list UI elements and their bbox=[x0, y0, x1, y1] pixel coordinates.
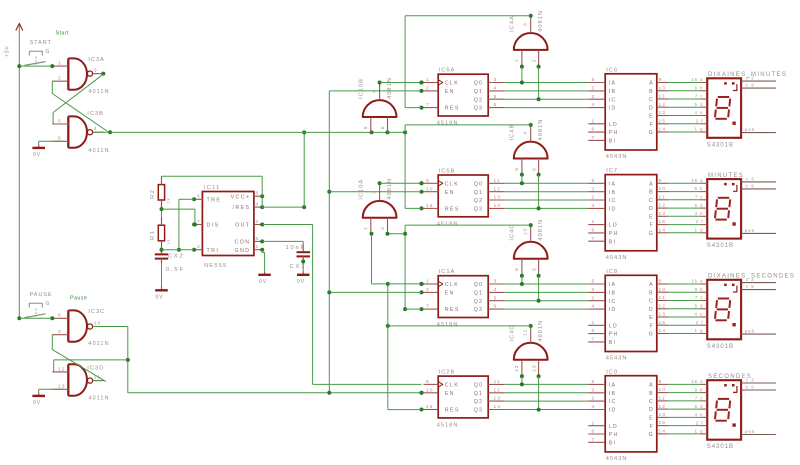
svg-text:GND: GND bbox=[235, 248, 251, 254]
svg-text:4: 4 bbox=[592, 102, 596, 108]
svg-text:5 d: 5 d bbox=[695, 404, 704, 409]
svg-text:EN: EN bbox=[445, 391, 455, 397]
svg-text:3: 3 bbox=[256, 219, 260, 225]
svg-text:6: 6 bbox=[494, 304, 498, 310]
svg-text:16 a: 16 a bbox=[691, 379, 703, 384]
svg-text:6: 6 bbox=[197, 194, 201, 200]
svg-text:G: G bbox=[46, 301, 51, 307]
svg-text:A: A bbox=[649, 383, 654, 389]
svg-text:5 d: 5 d bbox=[695, 102, 704, 107]
svg-text:12: 12 bbox=[58, 366, 65, 372]
svg-text:Q1: Q1 bbox=[474, 291, 483, 297]
svg-text:14: 14 bbox=[659, 227, 666, 233]
svg-text:A: A bbox=[649, 282, 654, 288]
svg-text:3: 3 bbox=[592, 86, 596, 92]
svg-text:IC5A: IC5A bbox=[439, 68, 456, 74]
svg-text:15: 15 bbox=[426, 404, 433, 410]
svg-text:9 b: 9 b bbox=[695, 387, 704, 392]
svg-text:4011N: 4011N bbox=[88, 89, 109, 95]
svg-text:PH: PH bbox=[609, 432, 619, 438]
svg-text:1: 1 bbox=[58, 61, 62, 67]
svg-text:B: B bbox=[649, 89, 654, 95]
svg-text:15: 15 bbox=[659, 320, 666, 326]
svg-text:c 9: c 9 bbox=[746, 384, 755, 389]
svg-text:9: 9 bbox=[659, 77, 663, 83]
svg-text:CON: CON bbox=[235, 240, 251, 246]
svg-text:Q2: Q2 bbox=[474, 399, 483, 405]
svg-text:Q3: Q3 bbox=[474, 408, 483, 414]
svg-text:1: 1 bbox=[592, 320, 596, 326]
svg-text:9: 9 bbox=[426, 379, 430, 385]
svg-text:PH: PH bbox=[609, 231, 619, 237]
svg-text:Q3: Q3 bbox=[474, 106, 483, 112]
svg-text:3: 3 bbox=[372, 190, 378, 194]
svg-text:12: 12 bbox=[494, 387, 501, 393]
svg-text:Q3: Q3 bbox=[474, 307, 483, 313]
svg-text:CX1: CX1 bbox=[290, 264, 307, 270]
svg-text:E: E bbox=[649, 416, 654, 422]
svg-text:LD: LD bbox=[609, 122, 618, 128]
svg-text:2 f: 2 f bbox=[696, 119, 704, 124]
svg-text:7 c: 7 c bbox=[695, 396, 704, 401]
svg-text:10: 10 bbox=[659, 287, 666, 293]
svg-text:3: 3 bbox=[494, 77, 498, 83]
svg-text:1: 1 bbox=[256, 244, 260, 250]
svg-text:6: 6 bbox=[592, 429, 596, 435]
svg-text:S4301B: S4301B bbox=[707, 344, 734, 350]
svg-text:C: C bbox=[649, 97, 654, 103]
svg-text:3: 3 bbox=[94, 68, 98, 74]
svg-text:1: 1 bbox=[426, 77, 430, 83]
svg-text:START: START bbox=[30, 40, 52, 46]
svg-text:2 f: 2 f bbox=[696, 420, 704, 425]
svg-text:4543N: 4543N bbox=[606, 456, 628, 462]
svg-text:BI: BI bbox=[609, 139, 617, 145]
svg-text:1: 1 bbox=[514, 58, 520, 62]
svg-text:2: 2 bbox=[531, 58, 537, 62]
svg-text:8: 8 bbox=[256, 191, 260, 197]
svg-text:CLK: CLK bbox=[445, 282, 460, 288]
svg-text:3: 3 bbox=[523, 22, 529, 26]
svg-text:7: 7 bbox=[426, 304, 430, 310]
svg-text:C: C bbox=[649, 299, 654, 305]
svg-text:PH: PH bbox=[609, 332, 619, 338]
svg-text:LD: LD bbox=[609, 424, 618, 430]
svg-text:15: 15 bbox=[659, 118, 666, 124]
svg-text:7 c: 7 c bbox=[695, 295, 704, 300]
svg-text:4: 4 bbox=[592, 304, 596, 310]
svg-text:c 3: c 3 bbox=[746, 176, 755, 181]
svg-text:13: 13 bbox=[494, 396, 501, 402]
svg-text:IC4B: IC4B bbox=[510, 124, 516, 141]
svg-text:B: B bbox=[649, 391, 654, 397]
svg-text:1: 1 bbox=[592, 118, 596, 124]
svg-text:5: 5 bbox=[592, 279, 596, 285]
svg-text:Q1: Q1 bbox=[474, 391, 483, 397]
svg-text:5: 5 bbox=[494, 295, 498, 301]
svg-text:13: 13 bbox=[659, 211, 666, 217]
svg-text:7: 7 bbox=[592, 135, 596, 141]
svg-text:11: 11 bbox=[659, 295, 666, 301]
svg-text:7 c: 7 c bbox=[695, 195, 704, 200]
svg-text:7: 7 bbox=[426, 102, 430, 108]
svg-text:12: 12 bbox=[659, 404, 666, 410]
svg-text:F: F bbox=[649, 223, 653, 229]
svg-text:IC7: IC7 bbox=[606, 168, 618, 174]
svg-text:Q0: Q0 bbox=[474, 81, 483, 87]
svg-text:3: 3 bbox=[592, 287, 596, 293]
svg-text:c 9: c 9 bbox=[746, 83, 755, 88]
svg-text:RES: RES bbox=[445, 408, 460, 414]
svg-text:IC4C: IC4C bbox=[510, 224, 516, 241]
svg-text:0V: 0V bbox=[156, 295, 164, 301]
svg-text:VCC+: VCC+ bbox=[231, 194, 251, 200]
svg-text:Q2: Q2 bbox=[474, 97, 483, 103]
svg-text:4081N: 4081N bbox=[387, 178, 393, 200]
svg-text:13: 13 bbox=[659, 412, 666, 418]
svg-text:IC: IC bbox=[609, 399, 617, 405]
svg-text:E: E bbox=[649, 315, 654, 321]
svg-text:A: A bbox=[649, 81, 654, 87]
svg-text:4: 4 bbox=[372, 89, 378, 93]
svg-text:1 g: 1 g bbox=[695, 127, 704, 132]
svg-text:E: E bbox=[649, 214, 654, 220]
svg-text:4081N: 4081N bbox=[538, 10, 544, 32]
svg-text:0V: 0V bbox=[33, 400, 41, 406]
svg-text:A: A bbox=[649, 181, 654, 187]
svg-text:6: 6 bbox=[592, 127, 596, 133]
svg-text:CLK: CLK bbox=[445, 81, 460, 87]
svg-text:2: 2 bbox=[58, 76, 62, 82]
svg-text:10nF: 10nF bbox=[286, 245, 306, 251]
svg-text:13: 13 bbox=[659, 110, 666, 116]
svg-text:4011N: 4011N bbox=[88, 396, 109, 402]
svg-text:6: 6 bbox=[380, 125, 386, 129]
svg-text:1: 1 bbox=[592, 420, 596, 426]
svg-text:R2: R2 bbox=[150, 189, 156, 199]
svg-text:4 e: 4 e bbox=[695, 211, 704, 216]
svg-text:4543N: 4543N bbox=[606, 255, 628, 261]
svg-text:BI: BI bbox=[609, 239, 617, 245]
svg-text:G: G bbox=[649, 130, 654, 136]
svg-text:Q2: Q2 bbox=[474, 198, 483, 204]
svg-text:4011N: 4011N bbox=[88, 148, 109, 154]
svg-text:pe6: pe6 bbox=[745, 127, 755, 132]
svg-text:R1: R1 bbox=[150, 230, 156, 240]
svg-text:IC9: IC9 bbox=[606, 369, 618, 375]
svg-text:pe6: pe6 bbox=[745, 228, 755, 233]
svg-text:9 b: 9 b bbox=[695, 86, 704, 91]
svg-text:2: 2 bbox=[592, 396, 596, 402]
svg-text:4: 4 bbox=[494, 86, 498, 92]
svg-text:11: 11 bbox=[494, 379, 501, 385]
svg-text:4543N: 4543N bbox=[606, 154, 628, 160]
svg-text:LD: LD bbox=[609, 323, 618, 329]
svg-text:10: 10 bbox=[426, 387, 433, 393]
svg-text:10: 10 bbox=[426, 186, 433, 192]
svg-text:B: B bbox=[649, 290, 654, 296]
svg-text:14: 14 bbox=[659, 127, 666, 133]
svg-text:4081N: 4081N bbox=[538, 219, 544, 241]
svg-text:2 f: 2 f bbox=[696, 219, 704, 224]
svg-text:7: 7 bbox=[592, 437, 596, 443]
svg-text:CX2: CX2 bbox=[168, 253, 185, 259]
svg-text:pe6: pe6 bbox=[745, 429, 755, 434]
svg-text:3: 3 bbox=[494, 279, 498, 285]
svg-text:16 a: 16 a bbox=[691, 279, 703, 284]
svg-text:4: 4 bbox=[256, 202, 260, 208]
svg-text:+5V: +5V bbox=[5, 45, 11, 57]
svg-text:11: 11 bbox=[523, 329, 529, 336]
svg-text:EN: EN bbox=[445, 89, 455, 95]
svg-text:1 g: 1 g bbox=[695, 328, 704, 333]
svg-text:9: 9 bbox=[659, 279, 663, 285]
svg-text:15: 15 bbox=[659, 420, 666, 426]
svg-text:4081N: 4081N bbox=[387, 77, 393, 99]
svg-text:8: 8 bbox=[58, 313, 62, 319]
svg-text:IC10B: IC10B bbox=[359, 78, 365, 99]
svg-text:4518N: 4518N bbox=[437, 221, 459, 227]
svg-text:9: 9 bbox=[426, 178, 430, 184]
svg-text:16 a: 16 a bbox=[691, 77, 703, 82]
svg-text:16 a: 16 a bbox=[691, 178, 703, 183]
svg-text:14: 14 bbox=[494, 203, 501, 209]
svg-text:9: 9 bbox=[659, 379, 663, 385]
svg-text:12: 12 bbox=[514, 364, 520, 371]
svg-text:4081N: 4081N bbox=[538, 320, 544, 342]
svg-text:E: E bbox=[649, 114, 654, 120]
svg-text:IC3B: IC3B bbox=[87, 111, 104, 117]
svg-text:BI: BI bbox=[609, 340, 617, 346]
svg-text:1 g: 1 g bbox=[695, 228, 704, 233]
svg-text:LD: LD bbox=[609, 223, 618, 229]
svg-text:IC1A: IC1A bbox=[439, 269, 456, 275]
svg-text:1 g: 1 g bbox=[695, 429, 704, 434]
svg-text:D: D bbox=[649, 206, 654, 212]
svg-text:1: 1 bbox=[363, 226, 369, 230]
svg-text:0V: 0V bbox=[259, 279, 267, 285]
svg-text:14: 14 bbox=[659, 429, 666, 435]
svg-text:CLK: CLK bbox=[445, 181, 460, 187]
svg-text:12: 12 bbox=[659, 102, 666, 108]
svg-text:Q1: Q1 bbox=[474, 89, 483, 95]
svg-text:15: 15 bbox=[659, 219, 666, 225]
svg-text:12: 12 bbox=[659, 303, 666, 309]
svg-text:NE555: NE555 bbox=[204, 263, 227, 269]
svg-text:5 d: 5 d bbox=[695, 303, 704, 308]
svg-text:1: 1 bbox=[592, 219, 596, 225]
svg-text:5: 5 bbox=[514, 167, 520, 171]
svg-text:TRI: TRI bbox=[207, 248, 220, 254]
svg-text:5: 5 bbox=[592, 77, 596, 83]
svg-text:PAUSE: PAUSE bbox=[30, 292, 53, 298]
svg-text:ID: ID bbox=[609, 307, 617, 313]
svg-text:c 9: c 9 bbox=[746, 284, 755, 289]
svg-text:11: 11 bbox=[494, 178, 501, 184]
svg-text:9 b: 9 b bbox=[695, 287, 704, 292]
svg-text:PH: PH bbox=[609, 130, 619, 136]
svg-text:14: 14 bbox=[659, 328, 666, 334]
svg-text:RES: RES bbox=[445, 207, 460, 213]
svg-text:4: 4 bbox=[592, 404, 596, 410]
svg-text:IC10A: IC10A bbox=[359, 179, 365, 200]
svg-text:5 d: 5 d bbox=[695, 203, 704, 208]
svg-text:C: C bbox=[649, 198, 654, 204]
svg-text:5: 5 bbox=[363, 125, 369, 129]
svg-text:2 f: 2 f bbox=[696, 320, 704, 325]
svg-text:5: 5 bbox=[494, 94, 498, 100]
svg-text:7: 7 bbox=[592, 337, 596, 343]
svg-text:11: 11 bbox=[659, 194, 666, 200]
svg-text:IC3D: IC3D bbox=[87, 365, 104, 371]
svg-text:IC6: IC6 bbox=[606, 67, 618, 73]
svg-text:IA: IA bbox=[609, 181, 617, 187]
svg-text:2: 2 bbox=[197, 244, 201, 250]
svg-text:IB: IB bbox=[609, 291, 617, 297]
svg-text:Q1: Q1 bbox=[474, 190, 483, 196]
svg-text:3: 3 bbox=[592, 186, 596, 192]
svg-text:IA: IA bbox=[609, 383, 617, 389]
svg-text:7: 7 bbox=[592, 236, 596, 242]
svg-text:15: 15 bbox=[426, 203, 433, 209]
svg-text:1k: 1k bbox=[167, 197, 171, 203]
svg-text:G: G bbox=[649, 432, 654, 438]
svg-text:IA: IA bbox=[609, 282, 617, 288]
svg-text:5: 5 bbox=[592, 379, 596, 385]
svg-text:IC: IC bbox=[609, 299, 617, 305]
svg-text:6: 6 bbox=[531, 167, 537, 171]
svg-text:4518N: 4518N bbox=[437, 423, 459, 429]
svg-text:4: 4 bbox=[523, 131, 529, 135]
svg-text:ID: ID bbox=[609, 408, 617, 414]
svg-text:2: 2 bbox=[592, 195, 596, 201]
svg-text:6: 6 bbox=[592, 328, 596, 334]
svg-text:/RES: /RES bbox=[233, 205, 251, 211]
svg-text:10: 10 bbox=[523, 227, 529, 234]
svg-text:IC4A: IC4A bbox=[510, 15, 516, 32]
svg-text:6: 6 bbox=[494, 102, 498, 108]
svg-text:7 c: 7 c bbox=[695, 94, 704, 99]
svg-text:G: G bbox=[649, 332, 654, 338]
svg-text:2: 2 bbox=[380, 226, 386, 230]
svg-text:13: 13 bbox=[494, 195, 501, 201]
svg-text:Q0: Q0 bbox=[474, 181, 483, 187]
svg-text:6: 6 bbox=[592, 228, 596, 234]
svg-text:Q3: Q3 bbox=[474, 207, 483, 213]
svg-text:11: 11 bbox=[659, 396, 666, 402]
svg-text:c 3: c 3 bbox=[746, 277, 755, 282]
svg-text:G: G bbox=[46, 49, 51, 55]
svg-text:9: 9 bbox=[659, 178, 663, 184]
svg-text:S4301B: S4301B bbox=[707, 444, 734, 450]
svg-text:9: 9 bbox=[531, 267, 537, 271]
svg-text:TRE: TRE bbox=[207, 197, 222, 203]
svg-text:2: 2 bbox=[426, 86, 430, 92]
svg-text:RES: RES bbox=[445, 307, 460, 313]
svg-text:13: 13 bbox=[531, 364, 537, 371]
svg-text:4: 4 bbox=[94, 126, 98, 132]
svg-text:G: G bbox=[649, 231, 654, 237]
svg-text:4: 4 bbox=[494, 287, 498, 293]
svg-text:D: D bbox=[649, 105, 654, 111]
svg-text:c 3: c 3 bbox=[746, 377, 755, 382]
svg-text:IB: IB bbox=[609, 391, 617, 397]
svg-text:EN: EN bbox=[445, 190, 455, 196]
svg-text:2: 2 bbox=[426, 287, 430, 293]
svg-text:4 e: 4 e bbox=[695, 110, 704, 115]
svg-text:IC8: IC8 bbox=[606, 269, 618, 275]
svg-text:0V: 0V bbox=[297, 279, 305, 285]
svg-text:IC4D: IC4D bbox=[510, 325, 516, 342]
svg-text:4 e: 4 e bbox=[695, 312, 704, 317]
svg-text:10: 10 bbox=[94, 321, 101, 327]
svg-text:S4301B: S4301B bbox=[707, 243, 734, 249]
svg-text:7: 7 bbox=[197, 219, 201, 225]
svg-text:Q2: Q2 bbox=[474, 299, 483, 305]
svg-text:10: 10 bbox=[659, 387, 666, 393]
svg-text:4011N: 4011N bbox=[88, 341, 109, 347]
svg-text:0,5F: 0,5F bbox=[166, 267, 185, 273]
svg-text:1: 1 bbox=[426, 279, 430, 285]
svg-text:F: F bbox=[649, 323, 653, 329]
svg-text:IC: IC bbox=[609, 198, 617, 204]
svg-text:4519N: 4519N bbox=[437, 121, 459, 127]
svg-text:11: 11 bbox=[659, 94, 666, 100]
svg-text:9: 9 bbox=[58, 329, 62, 335]
svg-text:CLK: CLK bbox=[445, 383, 460, 389]
svg-text:12: 12 bbox=[659, 203, 666, 209]
svg-text:pe6: pe6 bbox=[745, 329, 755, 334]
svg-text:BI: BI bbox=[609, 440, 617, 446]
svg-text:DIS: DIS bbox=[207, 223, 220, 229]
svg-text:S4301B: S4301B bbox=[707, 142, 734, 148]
svg-text:4518N: 4518N bbox=[437, 322, 459, 328]
svg-text:2: 2 bbox=[592, 94, 596, 100]
svg-text:Pause: Pause bbox=[70, 295, 87, 301]
svg-text:10: 10 bbox=[659, 85, 666, 91]
svg-text:4 e: 4 e bbox=[695, 412, 704, 417]
svg-text:0V: 0V bbox=[33, 152, 41, 158]
svg-text:8: 8 bbox=[514, 267, 520, 271]
svg-text:IC3C: IC3C bbox=[88, 309, 105, 315]
svg-text:D: D bbox=[649, 407, 654, 413]
svg-text:Q0: Q0 bbox=[474, 282, 483, 288]
svg-text:5: 5 bbox=[58, 118, 62, 124]
svg-text:F: F bbox=[649, 424, 653, 430]
svg-text:IC3A: IC3A bbox=[88, 57, 105, 63]
svg-text:13: 13 bbox=[659, 312, 666, 318]
svg-text:IA: IA bbox=[609, 81, 617, 87]
svg-text:IC: IC bbox=[609, 97, 617, 103]
svg-text:F: F bbox=[649, 122, 653, 128]
svg-text:B: B bbox=[649, 190, 654, 196]
svg-text:5: 5 bbox=[256, 236, 260, 242]
svg-text:MINUTES: MINUTES bbox=[708, 173, 744, 179]
svg-text:EN: EN bbox=[445, 291, 455, 297]
svg-text:5: 5 bbox=[592, 178, 596, 184]
svg-text:RES: RES bbox=[445, 106, 460, 112]
svg-text:IC2B: IC2B bbox=[439, 370, 456, 376]
svg-text:4543N: 4543N bbox=[606, 356, 628, 362]
svg-text:OUT: OUT bbox=[235, 223, 250, 229]
svg-text:4: 4 bbox=[592, 203, 596, 209]
svg-text:Q0: Q0 bbox=[474, 383, 483, 389]
svg-text:4081N: 4081N bbox=[538, 119, 544, 141]
svg-text:14: 14 bbox=[494, 404, 501, 410]
svg-text:IB: IB bbox=[609, 89, 617, 95]
svg-text:12: 12 bbox=[494, 186, 501, 192]
svg-text:ID: ID bbox=[609, 207, 617, 213]
